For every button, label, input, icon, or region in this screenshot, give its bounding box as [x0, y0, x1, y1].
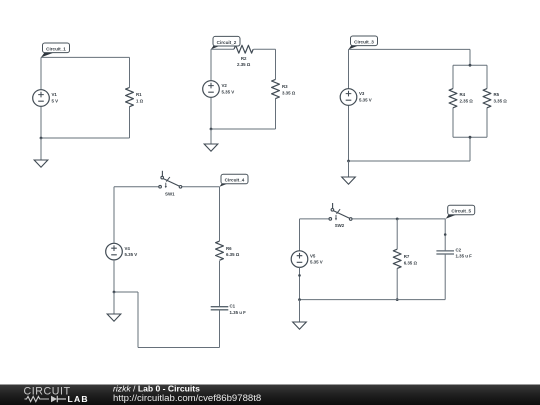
junction C2 lead C5 [444, 233, 447, 236]
svg-text:R5: R5 [494, 92, 500, 97]
logo resistor zigzag [25, 396, 50, 401]
label R3 3.35 Ohm [282, 84, 296, 95]
switch SW2 [329, 203, 352, 221]
resistor R5 [483, 89, 491, 108]
svg-text:http://circuitlab.com/cvef86b9: http://circuitlab.com/cvef86b9788t8 [113, 393, 261, 404]
junction bottom left C5 [298, 298, 301, 301]
wire top right C5 [352, 218, 446, 220]
svg-text:SW1: SW1 [165, 191, 175, 196]
ground C1 [34, 138, 48, 167]
wire top right C2 [254, 48, 276, 50]
svg-text:Circuit_1: Circuit_1 [46, 46, 66, 51]
wire left C2 [210, 49, 212, 80]
wire left lower C1 [40, 107, 42, 139]
svg-text:V2: V2 [222, 83, 228, 88]
wire right C4 [219, 187, 221, 241]
voltage source V1 [33, 90, 50, 107]
junction R7 bottom C5 [396, 298, 399, 301]
svg-text:CIRCUIT: CIRCUIT [24, 386, 71, 398]
wire down from box C3 [469, 137, 471, 161]
resistor R7 [393, 249, 401, 268]
svg-text:SW2: SW2 [335, 223, 345, 228]
bottom bar [0, 385, 540, 405]
wire box bottom bar C3 [453, 136, 487, 138]
wire right C2 [275, 49, 277, 79]
wire box left upper C3 [452, 65, 454, 88]
wire left vertical C4 [137, 292, 139, 348]
wire top C1 [41, 56, 130, 58]
wire junction horizontal C4 [114, 291, 138, 293]
svg-text:R7: R7 [404, 254, 410, 259]
wire top C3 [349, 48, 471, 50]
label R1 1 Ohm [136, 92, 144, 103]
wire bottom C4 [138, 347, 220, 349]
voltage source V4 [106, 243, 123, 260]
svg-text:3.35 Ω: 3.35 Ω [282, 91, 296, 96]
wire C2 bottom C5 [444, 254, 446, 300]
label V3 5.35 V [359, 91, 372, 102]
svg-text:R6: R6 [226, 246, 232, 251]
wire left top C3 [348, 49, 350, 88]
wire left top C4 [113, 187, 115, 244]
wire left top C1 [40, 57, 42, 89]
wire left lower C2 [210, 97, 212, 129]
svg-text:R2: R2 [241, 56, 247, 61]
wire right C1 [129, 57, 131, 87]
wire R7 bottom C5 [396, 268, 398, 300]
label C1 1.35 u F [230, 304, 247, 315]
svg-text:LAB: LAB [68, 394, 89, 404]
label C2 1.35 u F [456, 247, 473, 258]
wire top left C2 [211, 48, 234, 50]
ground C5 [293, 300, 307, 330]
label R4 2.35 Ohm [460, 92, 474, 103]
wire top right C4 [182, 186, 220, 188]
svg-text:Circuit_4: Circuit_4 [225, 178, 245, 183]
svg-text:V1: V1 [52, 92, 58, 97]
svg-text:5.35 V: 5.35 V [359, 98, 372, 103]
svg-text:2.35 Ω: 2.35 Ω [237, 62, 251, 67]
capacitor C2 [436, 251, 454, 254]
label R6 6.35 Ohm [226, 246, 240, 257]
resistor R4 [449, 89, 457, 108]
wire bottom C1 [41, 137, 130, 139]
ground C2 [204, 129, 218, 151]
svg-text:Circuit_2: Circuit_2 [217, 40, 237, 45]
wire right down to box C3 [469, 49, 471, 65]
svg-text:V5: V5 [310, 253, 316, 258]
label R5 3.35 Ohm [494, 92, 508, 103]
ground C3 [342, 161, 356, 184]
svg-text:R1: R1 [136, 92, 142, 97]
ground C4 [107, 292, 121, 321]
junction C1 bottom [40, 137, 43, 140]
wire R6 to C1 [219, 261, 221, 306]
svg-text:5.35 V: 5.35 V [222, 90, 235, 95]
logo diode [51, 396, 57, 402]
svg-text:5 V: 5 V [52, 99, 59, 104]
wire right lower C1 [129, 107, 131, 139]
junction V5 lead C5 [298, 274, 301, 277]
wire box right lower C3 [486, 108, 488, 138]
svg-text:1 Ω: 1 Ω [136, 99, 144, 104]
junction C3 bottom left [347, 160, 350, 163]
flag Circuit_5 [446, 205, 475, 219]
wire right lower C2 [275, 98, 277, 129]
svg-text:5.35 V: 5.35 V [125, 252, 138, 257]
switch SW1 [159, 171, 182, 189]
svg-text:R4: R4 [460, 92, 466, 97]
label V4 5.35 V [125, 246, 138, 257]
label R2 2.35 Ohm [237, 56, 251, 67]
svg-text:C1: C1 [230, 304, 236, 309]
svg-text:5.35 V: 5.35 V [310, 260, 323, 265]
voltage source V2 [203, 81, 220, 98]
svg-text:Circuit_3: Circuit_3 [354, 39, 374, 44]
wire top left C4 [114, 186, 159, 188]
svg-text:3.35 Ω: 3.35 Ω [494, 99, 508, 104]
label V2 5.35 V [222, 83, 235, 94]
flag Circuit_4 [220, 174, 249, 187]
junction R7 top C5 [396, 218, 399, 221]
flag Circuit_1 [41, 43, 70, 57]
resistor R3 [272, 79, 280, 98]
resistor R6 [216, 241, 224, 260]
wire R7 top C5 [396, 219, 398, 249]
junction C3 box top [469, 64, 472, 67]
wire left top C5 [299, 219, 301, 251]
wire V5 bottom C5 [299, 267, 301, 299]
wire bottom C5 [300, 299, 446, 301]
voltage source V5 [291, 251, 308, 268]
svg-text:R3: R3 [282, 84, 288, 89]
wire left lower C3 [348, 105, 350, 161]
svg-text:V3: V3 [359, 91, 365, 96]
junction C2 bottom [210, 128, 213, 131]
label V1 5 V [52, 92, 59, 103]
wire box left lower C3 [452, 108, 454, 138]
svg-text:1.35 u F: 1.35 u F [456, 254, 473, 259]
wire V4 bottom C4 [113, 260, 115, 292]
label R7 6.35 Ohm [404, 254, 418, 265]
svg-text:1.35 u F: 1.35 u F [230, 310, 247, 315]
capacitor C1 [211, 307, 229, 310]
svg-text:6.35 Ω: 6.35 Ω [226, 252, 240, 257]
svg-text:6.35 Ω: 6.35 Ω [404, 260, 418, 265]
wire box right upper C3 [486, 65, 488, 88]
wire box top bar C3 [453, 64, 487, 66]
resistor R1 [126, 88, 134, 107]
svg-text:Circuit_5: Circuit_5 [451, 209, 471, 214]
flag Circuit_2 [211, 36, 240, 49]
flag Circuit_3 [349, 36, 378, 49]
junction C3 box bottom [469, 136, 472, 139]
resistor R2 [234, 45, 253, 53]
label V5 5.35 V [310, 253, 323, 264]
svg-text:C2: C2 [456, 247, 462, 252]
wire bottom C2 [211, 128, 276, 130]
wire below C1 [219, 310, 221, 348]
svg-text:2.35 Ω: 2.35 Ω [460, 99, 474, 104]
voltage source V3 [340, 89, 357, 106]
svg-text:V4: V4 [125, 246, 131, 251]
wire C2 top C5 [444, 219, 446, 251]
junction C4 [113, 291, 116, 294]
wire bottom C3 [349, 160, 471, 162]
wire top left C5 [300, 218, 330, 220]
